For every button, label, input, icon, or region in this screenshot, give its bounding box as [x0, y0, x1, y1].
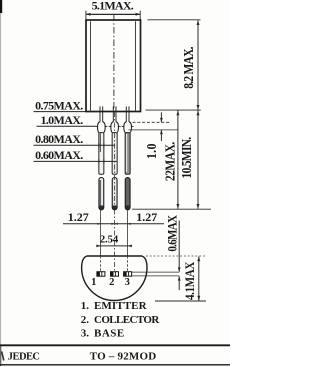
svg-text:BASE: BASE — [94, 328, 125, 340]
dim 5.1MAX line — [86, 13, 141, 15]
lead 3 lower — [125, 133, 130, 175]
svg-text:2.: 2. — [81, 314, 90, 326]
svg-text:COLLECTOR: COLLECTOR — [94, 314, 160, 326]
footer bottom rule — [0, 364, 230, 366]
ext line body top right — [148, 19, 201, 21]
ext bulge bottom — [129, 129, 179, 131]
dim 22MAX line — [177, 110, 179, 208]
svg-text:EMITTER: EMITTER — [94, 300, 148, 312]
svg-text:0.60MAX.: 0.60MAX. — [35, 148, 83, 162]
pad 3 — [124, 272, 132, 277]
svg-text:1.27: 1.27 — [136, 210, 157, 224]
ext line body bottom right — [146, 109, 201, 111]
svg-text:2: 2 — [109, 277, 114, 288]
ext line lead tips — [132, 208, 211, 210]
dim 1.0 line — [160, 112, 162, 122]
svg-text:4.1MAX: 4.1MAX — [182, 261, 197, 300]
svg-text:TO – 92MOD: TO – 92MOD — [90, 350, 157, 362]
bottom view D-shape — [82, 256, 147, 301]
pad ext lines right — [131, 271, 179, 273]
body outline (front view) — [86, 20, 141, 112]
ext verticals below leads — [100, 210, 102, 257]
dim 10.5MIN line — [197, 110, 199, 208]
svg-text:1.0MAX.: 1.0MAX. — [40, 113, 83, 127]
lead 2 bulge — [111, 122, 114, 133]
svg-text:5.1MAX.: 5.1MAX. — [92, 0, 134, 13]
dim 8.2MAX line — [197, 20, 199, 110]
svg-text:10.5MIN.: 10.5MIN. — [179, 137, 194, 179]
ext flat top right dashed — [146, 255, 206, 257]
centerline vertical — [113, 15, 115, 112]
lead 3 bulge — [124, 122, 127, 133]
footer top rule — [0, 344, 230, 346]
svg-text:0.80MAX.: 0.80MAX. — [35, 132, 83, 146]
svg-text:1.27: 1.27 — [68, 210, 89, 224]
lead 1 bulge — [97, 122, 100, 133]
lead 1 lower — [99, 133, 104, 175]
pad 2 — [111, 272, 119, 277]
dim 2.54 line — [97, 245, 132, 247]
svg-text:2.54: 2.54 — [100, 234, 119, 246]
dashed verticals to pads — [100, 256, 102, 272]
svg-text:0.75MAX.: 0.75MAX. — [35, 98, 83, 112]
ext bulge top dashed — [133, 121, 171, 123]
svg-text:1: 1 — [91, 277, 96, 288]
svg-text:JEDEC: JEDEC — [8, 352, 40, 363]
dim 0.6MAX line — [178, 221, 180, 272]
svg-text:22MAX.: 22MAX. — [163, 142, 178, 181]
lead 2 upper narrow — [112, 106, 114, 122]
svg-text:1.: 1. — [81, 300, 90, 312]
ext line bottom of D — [155, 300, 206, 302]
lead 2 lower — [112, 133, 117, 175]
scan edge artifact left — [0, 0, 2, 13]
svg-text:3: 3 — [125, 277, 130, 288]
svg-text:8.2 MAX.: 8.2 MAX. — [181, 47, 196, 89]
lead 3 upper narrow — [125, 106, 127, 122]
lead 1 upper narrow — [99, 106, 101, 122]
svg-text:1.0: 1.0 — [143, 143, 159, 159]
body inner line left — [90, 21, 92, 110]
svg-text:0.6MAX: 0.6MAX — [165, 215, 180, 252]
dim 4.1MAX line — [198, 256, 200, 300]
pad 1 — [97, 272, 105, 277]
svg-text:3.: 3. — [81, 328, 90, 340]
body inner line right — [135, 21, 137, 110]
dim 1.27 line — [63, 223, 164, 225]
